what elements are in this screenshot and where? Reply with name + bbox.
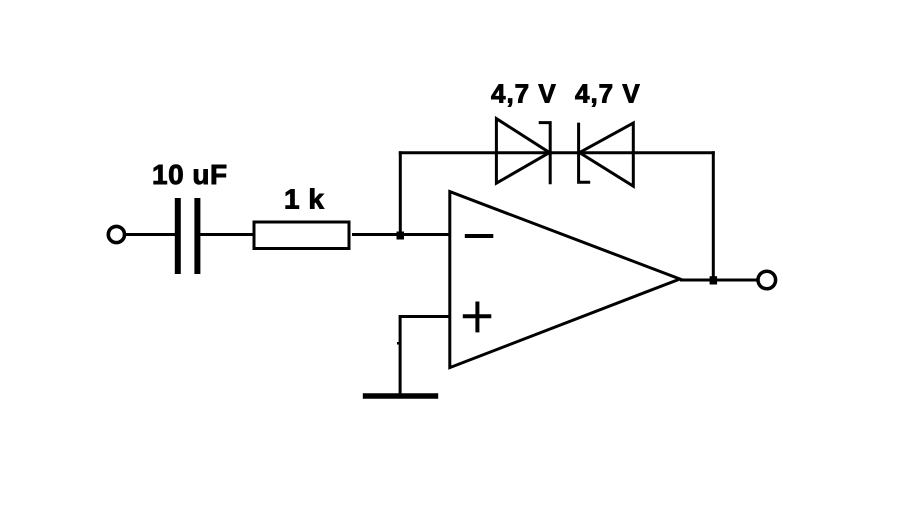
- wire: [352, 233, 450, 236]
- output terminal J2: [758, 271, 776, 289]
- wire: [200, 233, 254, 236]
- op-amp U1 inverting input marker: [465, 234, 494, 238]
- wire: [400, 315, 450, 318]
- wire: [680, 279, 758, 282]
- wire: [399, 315, 402, 396]
- op-amp U1 non-inverting input marker: [463, 302, 492, 333]
- wire: [399, 151, 715, 154]
- resistor R1: [254, 222, 349, 249]
- zener diode D1: [496, 119, 550, 185]
- ground: [363, 393, 438, 399]
- stray mark: [397, 342, 400, 345]
- svg-text:4,7 V: 4,7 V: [575, 79, 641, 109]
- node B output junction: [710, 276, 718, 284]
- svg-text:4,7 V: 4,7 V: [491, 79, 557, 109]
- op-amp U1: [450, 192, 680, 368]
- svg-text:1 k: 1 k: [284, 184, 324, 215]
- zener diode D2: [579, 123, 634, 187]
- svg-text:10 uF: 10 uF: [152, 159, 228, 190]
- input terminal J1: [108, 226, 124, 242]
- wire: [126, 233, 176, 236]
- wire: [399, 151, 402, 234]
- capacitor C1: [178, 198, 198, 274]
- wire: [712, 151, 715, 280]
- node A junction: [397, 232, 405, 240]
